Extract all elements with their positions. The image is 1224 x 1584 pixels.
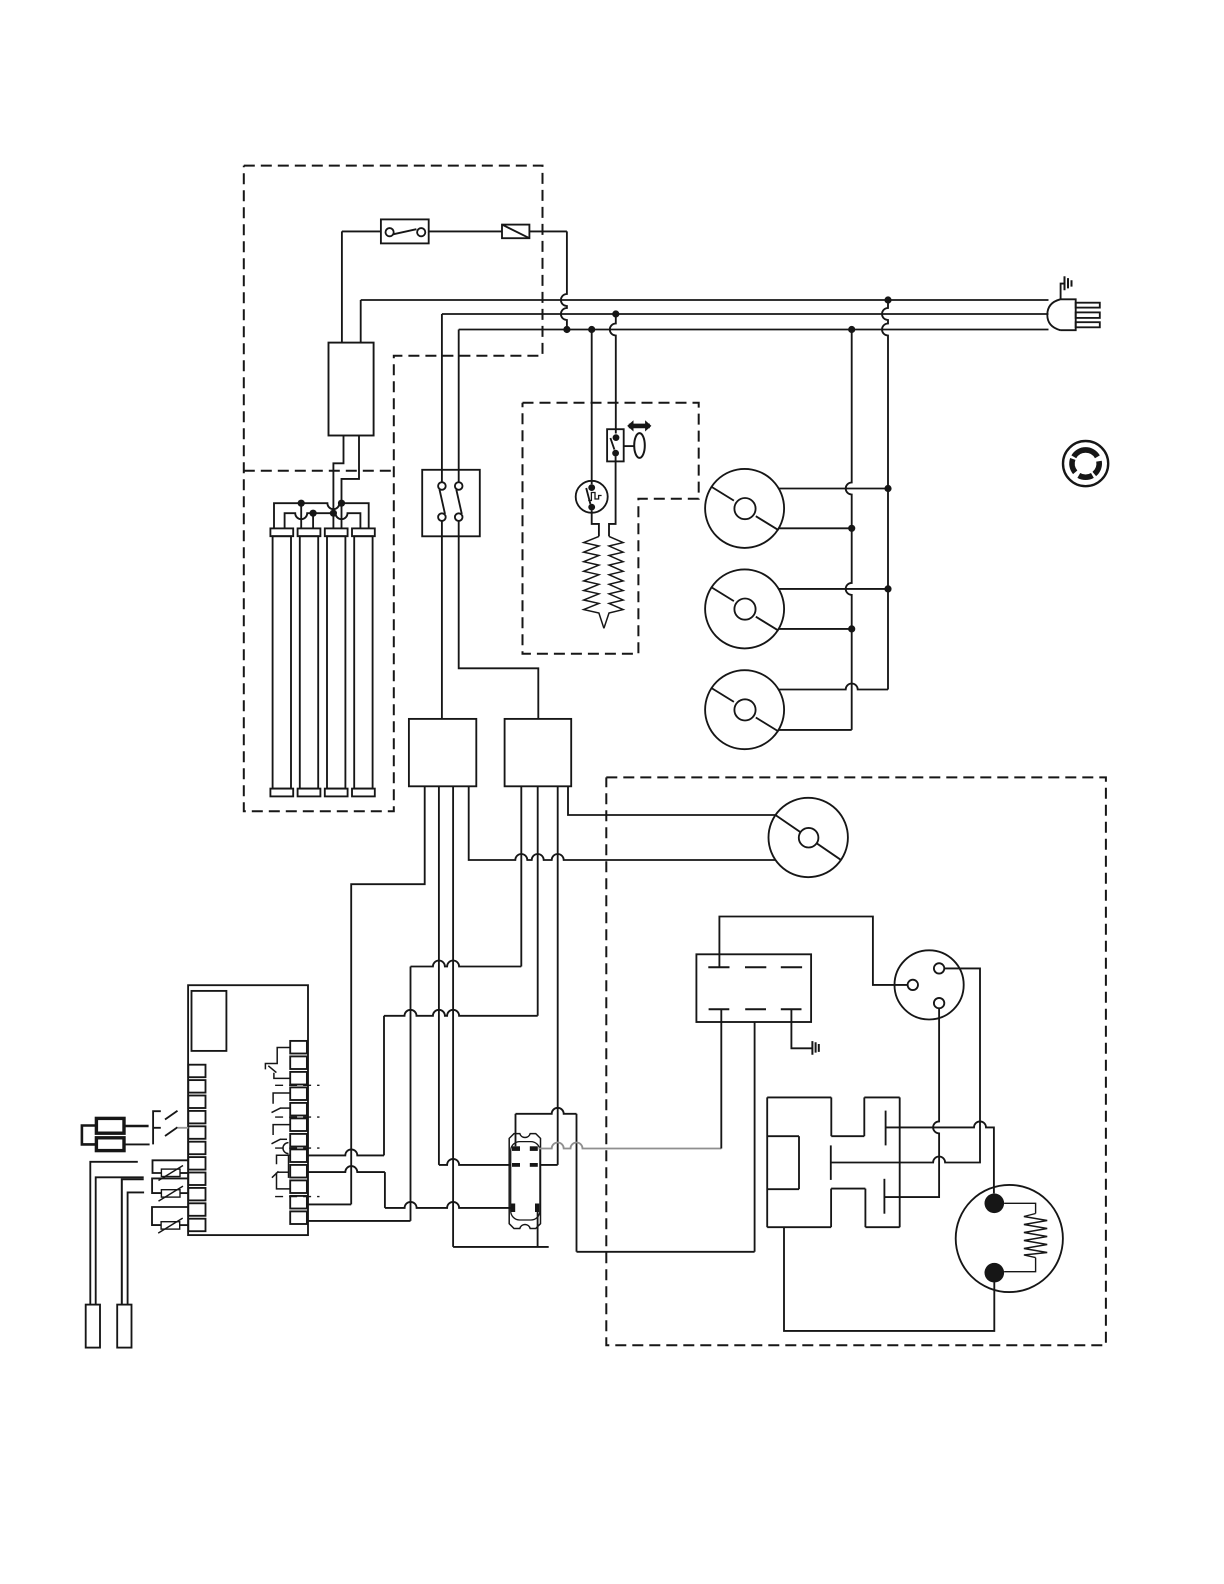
board linkage dashed row 3 [275, 1147, 319, 1149]
thermistor RT1 with bracket [153, 1160, 189, 1180]
wire: switch to fuse [429, 230, 502, 232]
board linkage dashed row 4 [275, 1196, 319, 1198]
wire: fuse 2 stub [124, 1143, 150, 1145]
drop: upper bus to tube2 [300, 503, 302, 528]
wire: K2 out4 to oven lamp top [568, 786, 775, 815]
wire: S2 left pole down to relay box K1 [441, 536, 443, 719]
thermal fuse block 2 [96, 1138, 124, 1151]
halogen tube 1 [270, 528, 293, 796]
wire: fuse drop with hops over L1,L2 [561, 231, 567, 329]
relay box K1 [409, 719, 476, 786]
ground symbol at plug [1061, 276, 1072, 299]
lower-right compartment dashed box [606, 777, 1106, 1345]
wire: CN2 top-left pad frame to timer terminal [515, 1114, 517, 1147]
wire: transformer secondary right to upper bus [342, 436, 360, 504]
heater upper bus [274, 503, 369, 528]
wire: board terminal 11 [307, 1203, 351, 1205]
wire: K1 out2 riser [438, 786, 440, 1165]
wire: K2 out1 riser [520, 786, 522, 966]
power cord plug P1 [1047, 299, 1099, 330]
wire: K1 out1 to board terminal 11 riser [351, 786, 425, 1204]
wire: S2 right pole down and jog to relay box K2 [459, 536, 539, 719]
3-pin connector CN1 [895, 950, 964, 1019]
fuse F1 [502, 225, 529, 239]
fuse bracket [82, 1126, 97, 1145]
chassis ground G2 [812, 1041, 818, 1055]
heater lower bus [285, 513, 361, 528]
board internal relay glyph 4 [272, 1155, 291, 1189]
relay box K2 [505, 719, 572, 786]
twist-lock receptacle face symbol [1063, 441, 1108, 486]
surface unit SU3 [705, 670, 784, 749]
junction dot L1 x right riser [884, 296, 891, 303]
wire: thermostat to broil element left leg [592, 511, 599, 537]
lamp connector CN2 [509, 1134, 540, 1229]
wire: K2 out1 to left riser with hops [411, 961, 522, 967]
drop: lower bus to tube2 [312, 513, 314, 528]
probe sensor wire 1 [90, 1162, 138, 1305]
wire: riser to board terminal 8 [383, 1016, 385, 1156]
junction dot upper bus right [338, 500, 345, 507]
wire: timer input from 3-pin connector [719, 917, 907, 985]
wire: L1 drop to transformer primary right [360, 300, 362, 343]
wire: K1 out4 to oven lamp bottom with hops [469, 786, 776, 860]
wire SU1 bottom [779, 527, 852, 529]
broil compartment dashed box [523, 403, 699, 654]
probe sensor wire 2 [96, 1177, 144, 1304]
wire: L3 drop to double switch [458, 330, 460, 470]
wire: K2 out2 riser [537, 786, 539, 1016]
oven lamp L4 [769, 798, 848, 877]
junction dot L3 x fuse drop [563, 326, 570, 333]
junction dot lower bus left [310, 510, 317, 517]
wire: fuse to drop corner [529, 230, 567, 232]
board linkage dashed row 1 [275, 1084, 319, 1086]
wire: door switch to plunger [624, 445, 635, 447]
wire: pump upper tap to buzzer with hops [886, 1121, 994, 1193]
wire: CN2 top-right pad to timer terminal (grey) with hops [539, 1143, 722, 1149]
wire: timer terminal to chassis ground [791, 1009, 812, 1048]
wire: fuse 1 to latch switch [124, 1125, 149, 1128]
door latch switch pair [153, 1111, 188, 1145]
wire: CN1 bottom pin to pump lower tap with hop [884, 1008, 939, 1197]
wire SU2 bottom [778, 628, 851, 630]
board internal relay glyph 3 [272, 1125, 291, 1154]
thermistor RT3 with bracket [152, 1207, 188, 1233]
wire: K2 out3 riser [557, 786, 559, 1165]
door switch S3 [607, 429, 624, 461]
probe sensor wire 3 [122, 1179, 144, 1304]
wire: board terminal 9 with hop [307, 1166, 385, 1172]
wire: K1 out2 to connector pad with hop [439, 1159, 511, 1165]
buzzer BZ1 [956, 1185, 1063, 1292]
broil element E1 zigzag [584, 536, 604, 628]
junction dot lower bus right [330, 510, 337, 517]
drop: lower bus junction to tube3 [332, 513, 334, 528]
wire SU3 bottom [779, 729, 852, 731]
halogen tube 4 [352, 528, 375, 796]
surface unit SU1 [705, 469, 784, 548]
wire L3 (bottom supply line) [459, 329, 1049, 331]
wire: terminal 9 jog down [384, 1172, 386, 1208]
halogen tube 2 [298, 528, 321, 796]
wire: transformer secondary left to lower bus [333, 436, 343, 514]
transformer/ballast T1 [329, 343, 374, 436]
wire: left riser to board terminal 12 [410, 967, 412, 1221]
oven light switch SW1 [381, 219, 429, 243]
timer box TM1 [696, 954, 811, 1022]
wire: timer terminal riser [720, 1009, 722, 1148]
wire: door switch to broil element right leg [609, 457, 616, 537]
board left terminals [188, 1065, 205, 1232]
wire: K2 out2 to left riser with hops [384, 1010, 538, 1016]
board inner rect [192, 991, 227, 1051]
wire: drop to transformer primary left [341, 231, 343, 342]
wire: pump bottom to buzzer bottom [784, 1227, 994, 1331]
meat probe PR1 [86, 1305, 100, 1348]
meat probe PR2 [117, 1305, 131, 1348]
halogen tube 3 [325, 528, 348, 796]
board internal relay glyph 2 [272, 1093, 291, 1113]
wire: switch to left drop [342, 230, 381, 232]
board linkage dashed row 2 [275, 1116, 319, 1118]
wire: thermostat drop [591, 330, 593, 485]
junction dot L2 x door-switch drop [612, 310, 619, 317]
thermistor RT2 with bracket [152, 1178, 188, 1201]
double-pole switch S2 [422, 470, 480, 537]
wire: CN1 top pin to pump centre tap [831, 968, 980, 1162]
control board A1 [188, 985, 308, 1235]
wire: board terminal 12 [307, 1220, 411, 1222]
surface unit SU2 [705, 569, 784, 648]
wire SU1 top [779, 488, 888, 490]
junction dot upper bus left [298, 500, 305, 507]
wire SU3 top with hop [779, 684, 889, 690]
wire: board terminal 8 with hop [307, 1149, 384, 1155]
board right terminals [290, 1041, 307, 1224]
wire: K1 out3 bottom run [453, 1246, 549, 1248]
wire: L2 drop to double switch [441, 314, 443, 470]
wire: bottom run up to connector pad [537, 1212, 539, 1247]
probe sensor wire 4 [128, 1192, 145, 1304]
heater compartment dashed top edge [244, 470, 394, 472]
wire: door-switch drop with hop over L3 [610, 314, 616, 434]
wire: K2 out3 to connector pad [541, 1164, 558, 1166]
pump/motor assembly M1 [767, 1097, 900, 1227]
control/console dashed enclosure [244, 166, 543, 812]
drop: upper bus junction to tube3 [341, 503, 343, 528]
wire SU2 top [778, 588, 888, 590]
wire L2 (middle supply line) [442, 313, 1049, 315]
riser from L1 (right) [882, 300, 888, 690]
door travel arrow [629, 424, 650, 429]
wire: jog to connector bottom pad with hops [385, 1202, 511, 1208]
riser from L3 (left) [846, 330, 852, 730]
wire: K1 out3 riser [452, 786, 454, 1247]
thermostat TS1 [576, 481, 608, 513]
junction dot L3 x left riser [848, 326, 855, 333]
wire L1 (top supply line) [361, 299, 1049, 301]
door plunger oval [634, 433, 645, 458]
junction dot L3 x thermostat drop [588, 326, 595, 333]
board internal relay glyph 1 [265, 1048, 290, 1079]
thermal fuse block 1 [96, 1118, 124, 1133]
